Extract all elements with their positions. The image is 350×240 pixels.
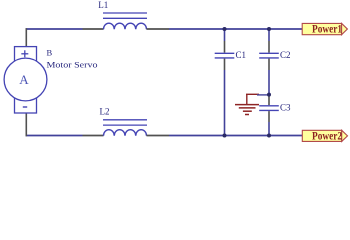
motor minus sign: [23, 106, 27, 108]
svg-text:A: A: [19, 72, 29, 87]
motor top pin wire: [25, 28, 27, 46]
power port Power1 flag: [302, 23, 341, 34]
capacitor C2 plates: [259, 52, 279, 54]
ground tap wire blue part: [257, 94, 269, 96]
ground tap wire red part: [246, 93, 259, 95]
junction dot top C2: [267, 27, 271, 31]
svg-text:Motor Servo: Motor Servo: [47, 60, 98, 70]
inductor L1 coil: [104, 23, 147, 29]
motor plus sign: [21, 50, 28, 57]
inductor L2 coil: [104, 130, 147, 136]
svg-text:L2: L2: [100, 107, 110, 117]
inductor L1 core lines: [103, 12, 147, 14]
power port Power2 flag: [302, 130, 341, 141]
svg-text:C2: C2: [280, 50, 291, 60]
svg-text:L1: L1: [98, 0, 108, 10]
junction dot bottom C1: [223, 134, 227, 138]
junction dot top C1: [223, 27, 227, 31]
ground bar 4: [245, 114, 249, 116]
capacitor C2 top wire: [268, 29, 270, 41]
motor bottom pin wire: [25, 113, 27, 136]
svg-text:C1: C1: [236, 50, 247, 60]
wire C3 to bottom rail: [268, 122, 270, 136]
svg-text:Power2: Power2: [312, 130, 342, 142]
wire bottom rail left segment: [26, 135, 83, 137]
capacitor C3 top pin: [268, 95, 270, 106]
capacitor C2 top pin: [268, 41, 270, 53]
wire C2 to ground node: [268, 70, 270, 95]
ground bar 2: [239, 107, 256, 109]
svg-text:B: B: [47, 48, 53, 58]
inductor L2 right pin: [147, 135, 170, 137]
capacitor C1 plates: [215, 52, 235, 54]
inductor L2 core lines: [103, 119, 147, 121]
ground stem: [246, 94, 248, 104]
capacitor C2 bottom pin: [268, 59, 270, 70]
motor servo B circle: [4, 58, 47, 101]
inductor L1 right pin: [147, 28, 170, 30]
capacitor C3 plates: [259, 105, 279, 107]
wire top rail right segment: [169, 28, 302, 30]
junction dot ground node: [267, 93, 271, 97]
capacitor C1 top wire: [224, 29, 226, 41]
capacitor C1 bottom pin: [224, 59, 226, 70]
capacitor C1 top pin: [224, 41, 226, 53]
capacitor C3 bottom pin: [268, 111, 270, 122]
wire top rail left segment: [26, 28, 83, 30]
motor servo B body rectangle: [15, 47, 37, 113]
svg-text:C3: C3: [280, 103, 291, 113]
ground bar 1: [235, 104, 259, 106]
wire bottom rail right segment: [169, 135, 302, 137]
junction dot bottom C3: [267, 134, 271, 138]
ground bar 3: [243, 110, 252, 112]
wire C1 to bottom rail: [224, 70, 226, 136]
svg-text:Power1: Power1: [312, 24, 342, 36]
inductor L1 left pin: [83, 28, 104, 30]
inductor L2 left pin: [83, 135, 104, 137]
